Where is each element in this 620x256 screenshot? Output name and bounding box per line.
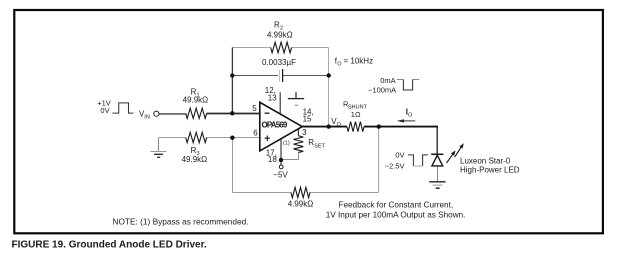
wire R2 row left <box>232 47 271 49</box>
svg-text:FIGURE 19. Grounded Anode LED: FIGURE 19. Grounded Anode LED Driver. <box>12 240 207 251</box>
resistor RSET <box>294 136 304 153</box>
waveform output current step <box>397 79 419 81</box>
wire R3 row <box>159 137 260 139</box>
wire cap row left <box>233 75 279 77</box>
node cap left dot <box>230 73 234 77</box>
wire feedback left vertical <box>231 48 233 114</box>
op-amp plus sign <box>265 136 270 142</box>
svg-text:18: 18 <box>268 155 277 164</box>
wire R2 row right <box>292 47 329 49</box>
node -5V dot <box>279 158 283 162</box>
svg-text:−100mA: −100mA <box>368 85 396 94</box>
wire bottom feedback <box>233 192 379 194</box>
svg-text:5: 5 <box>252 104 257 113</box>
terminal VIN circle <box>154 111 159 116</box>
wire output main <box>302 126 438 128</box>
diode D1 LED cathode bar <box>431 153 443 155</box>
svg-text:3: 3 <box>302 128 307 137</box>
wire pin 3 stub <box>297 129 299 136</box>
terminal -5V circle <box>279 165 283 169</box>
svg-text:0V: 0V <box>395 150 404 159</box>
svg-text:−5V: −5V <box>273 171 288 180</box>
resistor R1 <box>186 108 207 118</box>
svg-text:49.9kΩ: 49.9kΩ <box>183 95 209 104</box>
wire LED to ground <box>437 166 439 181</box>
svg-text:High-Power LED: High-Power LED <box>460 165 520 174</box>
svg-text:O: O <box>337 62 342 68</box>
op-amp minus sign <box>265 112 270 114</box>
wire node B down vertical <box>232 138 234 193</box>
svg-text:0.0033µF: 0.0033µF <box>262 58 296 67</box>
svg-text:SET: SET <box>314 143 325 149</box>
node B dot <box>230 136 234 140</box>
svg-text:4.99kΩ: 4.99kΩ <box>288 199 314 208</box>
svg-text:OPA569: OPA569 <box>262 121 288 130</box>
svg-text:−2.5V: −2.5V <box>385 161 405 170</box>
node A dot <box>230 111 234 115</box>
svg-text:(1): (1) <box>283 140 290 146</box>
resistor RSHUNT <box>347 122 364 132</box>
node cap right dot <box>327 73 331 77</box>
resistor 4.99k bottom <box>291 187 310 197</box>
ground (LED) <box>429 181 445 183</box>
svg-text:4.99kΩ: 4.99kΩ <box>267 31 293 40</box>
wire bottom right vertical <box>378 127 380 193</box>
wire pin 12 13 stub <box>279 92 281 114</box>
svg-text:IN: IN <box>144 114 150 120</box>
waveform LED voltage step <box>408 155 428 166</box>
svg-text:Feedback for Constant Current,: Feedback for Constant Current, <box>338 201 453 210</box>
waveform input step <box>112 103 133 113</box>
wire pin 17 18 stem <box>280 139 282 165</box>
svg-text:Luxeon Star-0: Luxeon Star-0 <box>460 156 511 165</box>
svg-text:O: O <box>337 122 342 128</box>
svg-text:= 10kHz: = 10kHz <box>344 57 374 66</box>
resistor R2 <box>271 42 292 53</box>
svg-text:O: O <box>408 112 413 118</box>
svg-text:1Ω: 1Ω <box>351 110 361 119</box>
resistor R3 <box>186 132 207 142</box>
node VO dot <box>327 124 331 128</box>
wire input main <box>159 113 186 115</box>
svg-text:15: 15 <box>303 114 312 123</box>
svg-text:13: 13 <box>268 94 277 103</box>
arrow IO <box>400 120 415 122</box>
svg-text:0V: 0V <box>100 106 109 115</box>
svg-text:6: 6 <box>253 128 258 137</box>
diode D1 LED triangle <box>432 155 443 166</box>
LED light arrow 1 <box>445 149 457 164</box>
node shunt right dot <box>377 124 381 128</box>
wire cap row right <box>283 75 329 77</box>
LED light arrow 2 <box>453 142 465 158</box>
wire RSET bottom L <box>281 153 299 160</box>
svg-text:0mA: 0mA <box>380 76 395 85</box>
svg-text:NOTE: (1) Bypass as recommende: NOTE: (1) Bypass as recommended. <box>113 216 249 226</box>
wire feedback right vertical <box>328 48 330 127</box>
ground (op-amp pins 14 15) <box>295 92 297 98</box>
svg-text:R: R <box>308 138 314 147</box>
op-amp U1 OPA569 <box>260 102 302 151</box>
svg-text:49.9kΩ: 49.9kΩ <box>182 155 208 164</box>
capacitor 0.0033uF <box>278 70 280 82</box>
svg-text:1V Input per 100mA Output as S: 1V Input per 100mA Output as Shown. <box>326 211 466 220</box>
ground (R3 input) <box>158 138 160 151</box>
